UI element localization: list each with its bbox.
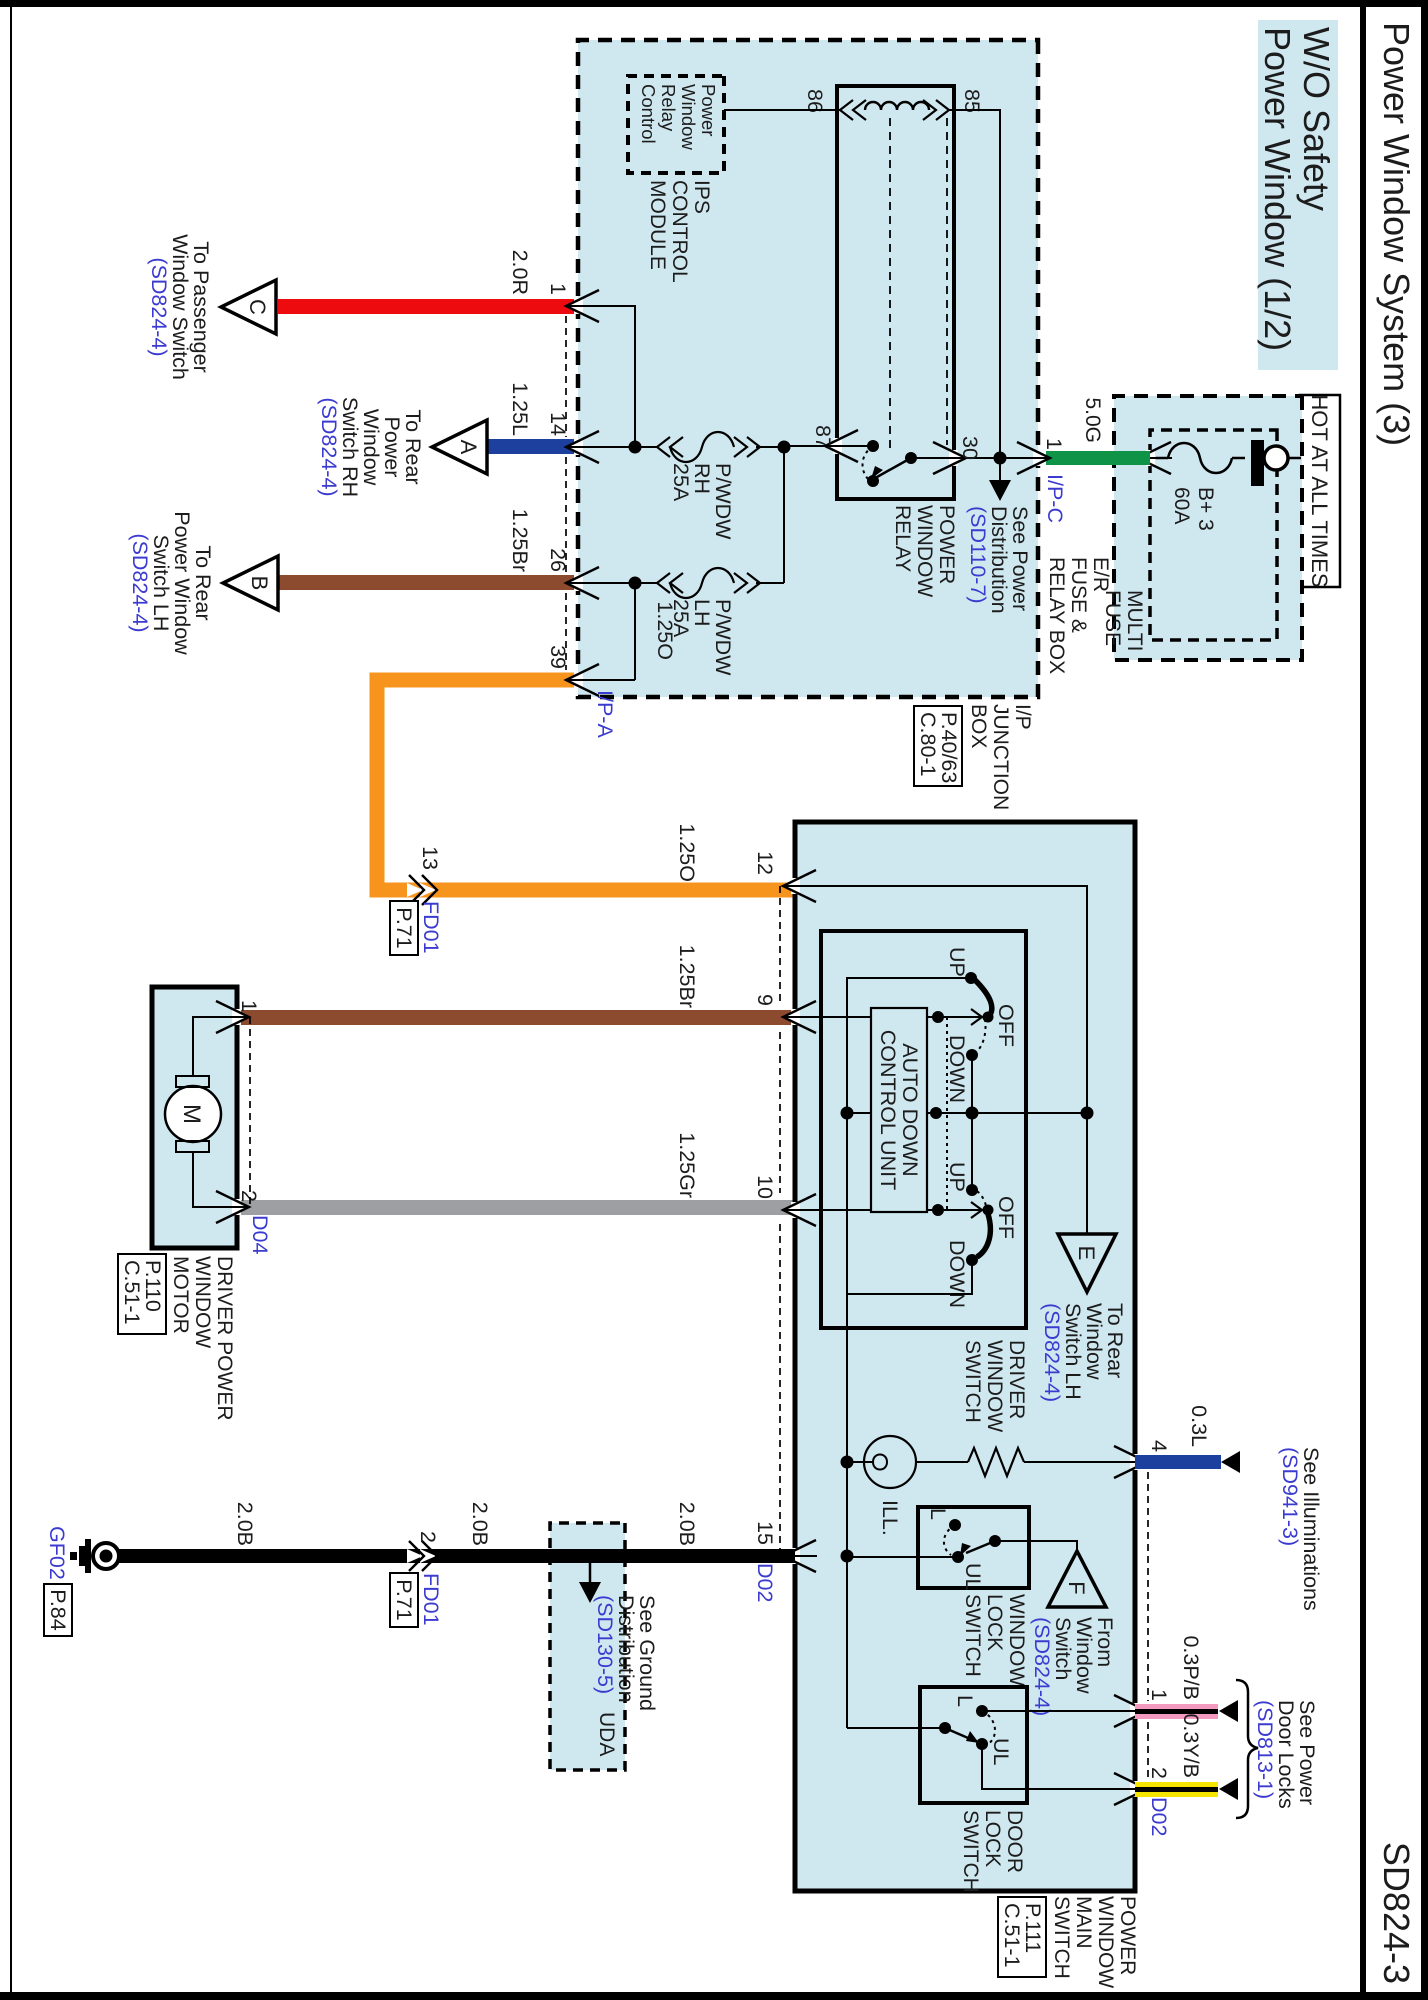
POWER WINDOW RELAY label	[891, 505, 958, 597]
door lock arm	[945, 1728, 975, 1741]
svg-text:POWER: POWER	[1116, 1896, 1139, 1975]
svg-text:26: 26	[546, 548, 570, 572]
ground tap arrow	[579, 1556, 601, 1603]
D04 connector dashed link	[249, 1017, 251, 1207]
svg-text:Switch: Switch	[1051, 1617, 1075, 1680]
svg-text:P.110: P.110	[141, 1260, 165, 1312]
To Rear Power Window Switch RH label	[317, 397, 425, 497]
svg-text:P.84: P.84	[46, 1589, 70, 1630]
P.84 label box	[44, 1584, 72, 1636]
lower switch arm arrow	[983, 1205, 994, 1216]
svg-text:Power Window System (3): Power Window System (3)	[1376, 22, 1417, 446]
svg-text:Power: Power	[380, 417, 404, 478]
pin labels on junction box	[546, 283, 570, 669]
upper switch thick arc	[975, 980, 992, 1016]
P.110 C.51-1 label box	[118, 1254, 166, 1334]
relay internal dashed links	[890, 118, 947, 452]
wire pin9 to contact	[795, 1016, 981, 1018]
svg-text:CONTROL: CONTROL	[668, 180, 691, 283]
svg-text:UDA: UDA	[595, 1712, 618, 1756]
window lock dotted arc	[944, 1525, 955, 1555]
D02 connector dashed link bottom	[779, 886, 781, 1003]
wire lower UP to bus?	[971, 1113, 973, 1190]
pin chevrons on main switch box top	[1113, 1446, 1148, 1805]
svg-text:JUNCTION: JUNCTION	[989, 704, 1012, 810]
svg-text:1.25Br: 1.25Br	[675, 945, 699, 1008]
driver power window motor box	[152, 987, 237, 1248]
ground symbol GF02	[70, 1539, 119, 1573]
svg-text:MULTI: MULTI	[1123, 590, 1146, 651]
svg-text:M: M	[178, 1104, 205, 1124]
svg-text:Door Locks: Door Locks	[1274, 1700, 1298, 1809]
D02 connector dashed link top	[1147, 1472, 1149, 1701]
svg-text:OFF: OFF	[994, 1196, 1018, 1239]
svg-text:1: 1	[546, 283, 570, 295]
svg-text:4: 4	[1147, 1440, 1171, 1452]
svg-text:P/WDW: P/WDW	[711, 463, 735, 540]
wire gauge labels	[508, 250, 677, 660]
trunk to door lock	[846, 1462, 848, 1728]
wire 0.3L dark blue	[1135, 1455, 1221, 1469]
wire 26/39 branch	[634, 583, 636, 680]
door lock common	[939, 1722, 951, 1734]
wire pin10 to contact	[795, 1209, 981, 1211]
illumination arrow	[1221, 1451, 1240, 1473]
See Ground Distribution label	[593, 1595, 659, 1711]
svg-text:1.25O: 1.25O	[675, 823, 699, 882]
wire 5.0G green	[1046, 451, 1150, 465]
P/WDW RH 25A label	[669, 463, 735, 540]
svg-text:Window: Window	[359, 409, 383, 486]
svg-text:UP: UP	[945, 1162, 969, 1192]
node trunk pin15	[841, 1550, 854, 1563]
svg-text:30: 30	[958, 436, 982, 460]
svg-text:DRIVER POWER: DRIVER POWER	[213, 1256, 236, 1421]
svg-text:LOCK: LOCK	[981, 1810, 1004, 1867]
P/WDW LH 25A label	[669, 599, 735, 676]
ILL lamp	[864, 1436, 916, 1488]
wire 1.25Gr gray motor to switch	[237, 1200, 795, 1215]
svg-text:SWITCH: SWITCH	[959, 1810, 982, 1893]
svg-text:2: 2	[416, 1531, 440, 1543]
driver switch upper contact DOWN	[966, 1049, 978, 1061]
svg-text:Window: Window	[1072, 1617, 1096, 1694]
svg-text:MAIN: MAIN	[1072, 1896, 1095, 1949]
svg-text:LH: LH	[690, 599, 714, 626]
svg-text:12: 12	[753, 851, 777, 875]
svg-text:DRIVER: DRIVER	[1005, 1340, 1028, 1419]
svg-text:Power Window (1/2): Power Window (1/2)	[1257, 27, 1298, 351]
driver switch lower contact UP	[966, 1184, 978, 1196]
svg-text:UP: UP	[945, 947, 969, 977]
svg-text:2: 2	[237, 1190, 261, 1202]
svg-text:UL: UL	[989, 1738, 1013, 1766]
pin 1 I/P-C at junction box top	[1016, 438, 1067, 523]
wire 1.25L blue	[487, 439, 577, 454]
svg-text:DOOR: DOOR	[1003, 1810, 1026, 1873]
svg-text:Distribution: Distribution	[614, 1595, 638, 1703]
common trunk wire	[847, 978, 971, 1462]
header highlight W/O Safety Power Window (1/2)	[1257, 20, 1338, 370]
wire 1.25Br brown	[278, 575, 577, 590]
resistor to pin4 wire	[1024, 1461, 1135, 1463]
svg-text:(SD813-1): (SD813-1)	[1253, 1700, 1277, 1799]
From Window Switch label	[1030, 1617, 1117, 1716]
svg-text:9: 9	[753, 994, 777, 1006]
svg-text:2.0B: 2.0B	[468, 1502, 492, 1546]
Power Window Relay Control label	[638, 84, 719, 150]
svg-text:RELAY BOX: RELAY BOX	[1045, 557, 1068, 674]
wire common to F	[995, 1541, 1077, 1551]
svg-text:W/O Safety: W/O Safety	[1296, 27, 1337, 211]
auto down control unit box	[871, 1008, 927, 1212]
triangle E	[1058, 1234, 1116, 1292]
wire 1.25Br brown motor to switch	[237, 1010, 795, 1025]
svg-text:1.25O: 1.25O	[653, 601, 677, 660]
mechanical dotted link	[946, 1017, 948, 1210]
svg-text:FD01: FD01	[419, 901, 443, 954]
window lock arm	[966, 1541, 995, 1553]
svg-text:(SD824-4): (SD824-4)	[128, 533, 152, 632]
window lock switch box	[918, 1507, 1029, 1588]
svg-text:P.71: P.71	[392, 1579, 416, 1620]
svg-text:SD824-3: SD824-3	[1376, 1842, 1417, 1984]
svg-text:A: A	[456, 440, 481, 455]
DRIVER POWER WINDOW MOTOR label	[169, 1256, 236, 1421]
svg-text:Switch LH: Switch LH	[1061, 1303, 1085, 1400]
MULTI FUSE label	[1101, 590, 1146, 651]
svg-text:(SD130-5): (SD130-5)	[593, 1595, 617, 1694]
wire door lock L to pin1	[982, 1710, 1135, 1712]
node pin10 adcu	[932, 1204, 944, 1216]
svg-text:(SD824-4): (SD824-4)	[1030, 1617, 1054, 1716]
svg-text:C.51-1: C.51-1	[120, 1260, 144, 1325]
door lock L contact	[976, 1705, 988, 1717]
svg-text:Switch LH: Switch LH	[149, 535, 173, 632]
svg-text:RH: RH	[690, 463, 714, 494]
svg-text:10: 10	[753, 1175, 777, 1199]
window lock L contact	[949, 1519, 961, 1531]
svg-text:To Rear: To Rear	[1103, 1303, 1127, 1378]
wire pin12 feed	[795, 886, 1087, 1234]
svg-text:SWITCH: SWITCH	[961, 1340, 984, 1423]
svg-text:DOWN: DOWN	[945, 1035, 969, 1103]
node breakers join	[778, 441, 791, 454]
svg-text:C: C	[245, 299, 270, 315]
svg-text:UL: UL	[961, 1563, 985, 1591]
svg-text:MODULE: MODULE	[646, 180, 669, 270]
motor pin labels	[237, 1000, 261, 1202]
relay coil	[865, 102, 929, 110]
svg-text:RELAY: RELAY	[891, 505, 914, 572]
P.40/63 C.80-1 label box	[914, 706, 962, 786]
door lock arrow pink	[1219, 1700, 1238, 1722]
page border top	[1421, 0, 1428, 2000]
To Rear Window Switch LH label	[1040, 1303, 1127, 1402]
svg-text:From: From	[1093, 1617, 1117, 1667]
wire door lock common to trunk	[847, 1727, 945, 1729]
svg-text:1: 1	[1042, 438, 1066, 450]
svg-text:FUSE &: FUSE &	[1067, 557, 1090, 633]
P.111 C.51-1 label box	[998, 1897, 1046, 1977]
svg-text:WINDOW: WINDOW	[983, 1340, 1006, 1432]
svg-text:(SD824-4): (SD824-4)	[317, 397, 341, 496]
wire 86 to IPS module	[724, 109, 840, 111]
lower switch thick arc	[977, 1214, 990, 1257]
triangle B	[223, 556, 278, 610]
svg-text:2.0R: 2.0R	[508, 250, 532, 295]
svg-text:1.25L: 1.25L	[508, 382, 532, 436]
wire red pin to node	[578, 306, 635, 447]
svg-text:LOCK: LOCK	[983, 1594, 1006, 1651]
svg-text:To Passenger: To Passenger	[189, 241, 213, 372]
I/P JUNCTION BOX label	[967, 704, 1034, 810]
svg-text:F: F	[1064, 1581, 1089, 1594]
I/P-A connector dashed link	[565, 316, 567, 437]
pin chevrons on main switch box bottom	[782, 870, 817, 1572]
window lock arm arrow	[960, 1543, 971, 1556]
svg-text:D04: D04	[248, 1215, 272, 1254]
svg-text:Switch RH: Switch RH	[338, 397, 362, 497]
wire pin26 to breaker	[578, 582, 635, 584]
svg-text:25A: 25A	[669, 463, 693, 502]
wire 2.0B black ground wire	[99, 1549, 795, 1563]
relay switch contacts	[837, 440, 940, 487]
svg-text:Window: Window	[678, 84, 699, 150]
wire 0.3P/B pink with black stripe	[1135, 1704, 1218, 1719]
svg-text:Power Window: Power Window	[170, 511, 194, 655]
upper switch dotted arc to DOWN	[977, 1019, 986, 1051]
page border right	[0, 1992, 1428, 2000]
svg-text:WINDOW: WINDOW	[1005, 1594, 1028, 1686]
svg-text:5.0G: 5.0G	[1081, 397, 1104, 443]
wire upper DOWN to bus	[971, 1055, 973, 1113]
WINDOW LOCK SWITCH label	[961, 1594, 1028, 1686]
node bus top	[1081, 1107, 1094, 1120]
node 26/39	[629, 577, 642, 590]
svg-text:E: E	[1074, 1246, 1099, 1261]
svg-text:C.51-1: C.51-1	[1000, 1903, 1024, 1968]
svg-text:1.25Br: 1.25Br	[508, 509, 532, 572]
I/P junction box	[578, 40, 1038, 697]
svg-text:D02: D02	[1147, 1797, 1171, 1836]
svg-text:ILL.: ILL.	[878, 1500, 902, 1536]
pin labels top	[1147, 1440, 1171, 1779]
svg-text:60A: 60A	[1170, 487, 1193, 524]
svg-text:WINDOW: WINDOW	[1094, 1896, 1117, 1988]
node bus adcu	[930, 1107, 942, 1119]
battery terminal circle	[1264, 446, 1301, 470]
svg-text:B+ 3: B+ 3	[1194, 487, 1217, 531]
battery bar	[1251, 440, 1264, 486]
svg-text:POWER: POWER	[935, 505, 958, 584]
svg-text:2: 2	[1147, 1767, 1171, 1779]
node at I/P-C branch	[994, 452, 1007, 465]
svg-text:To Rear: To Rear	[191, 545, 215, 620]
svg-text:(SD110-7): (SD110-7)	[966, 506, 990, 604]
window lock UL contact	[952, 1551, 964, 1563]
wire 1.25O orange	[377, 680, 795, 890]
relay coil chevrons pin 85	[923, 100, 949, 120]
wire pin39	[578, 679, 635, 681]
triangle C	[221, 280, 276, 334]
svg-text:HOT AT ALL TIMES: HOT AT ALL TIMES	[1307, 394, 1332, 587]
svg-text:CONTROL UNIT: CONTROL UNIT	[876, 1030, 900, 1190]
wire gauge labels bottom	[675, 945, 699, 1546]
door lock arm arrow	[966, 1731, 979, 1743]
svg-text:WINDOW: WINDOW	[913, 505, 936, 597]
svg-text:0.3P/B: 0.3P/B	[1179, 1635, 1203, 1700]
circuit breaker P/WDW RH 25A	[635, 432, 784, 462]
lower switch dotted arc	[977, 1191, 986, 1211]
door lock switch box	[920, 1687, 1027, 1803]
node trunk lamp	[841, 1456, 854, 1469]
svg-text:SWITCH: SWITCH	[961, 1594, 984, 1677]
svg-text:Power: Power	[698, 84, 719, 136]
FD01 connector on orange wire	[390, 846, 443, 955]
title rule	[1360, 0, 1366, 2000]
lamp to resistor wire	[916, 1461, 968, 1463]
door lock dotted arc	[982, 1711, 995, 1744]
To Rear Power Window Switch LH label	[128, 511, 215, 655]
pin chevrons on junction box bottom edge	[565, 290, 600, 696]
svg-text:(SD824-4): (SD824-4)	[1040, 1303, 1064, 1402]
DRIVER WINDOW SWITCH label	[961, 1340, 1028, 1432]
page border left	[0, 0, 1428, 7]
bus vertical	[847, 1112, 1087, 1114]
wire lower DOWN to trunk	[847, 1260, 972, 1294]
svg-text:P.40/63: P.40/63	[937, 712, 961, 783]
window lock common	[989, 1535, 1001, 1547]
svg-text:FD01: FD01	[419, 1573, 443, 1626]
svg-text:I/P-C: I/P-C	[1043, 474, 1067, 523]
svg-text:Distribution: Distribution	[987, 506, 1011, 614]
See Power Door Locks label	[1253, 1700, 1319, 1809]
node bus mid	[966, 1107, 979, 1120]
svg-text:C.80-1: C.80-1	[916, 712, 940, 777]
svg-text:1: 1	[1147, 1689, 1171, 1701]
power window relay box	[837, 86, 954, 499]
chevron at multi fuse exit	[1146, 450, 1155, 466]
relay pin 30 chevron	[949, 450, 958, 466]
upper switch arm arrow	[983, 1012, 994, 1023]
svg-text:(SD941-3): (SD941-3)	[1278, 1447, 1302, 1546]
svg-text:AUTO DOWN: AUTO DOWN	[898, 1043, 922, 1176]
svg-text:0.3L: 0.3L	[1187, 1405, 1211, 1447]
svg-text:L: L	[953, 1695, 977, 1707]
svg-text:Window: Window	[1082, 1303, 1106, 1380]
triangle A	[432, 420, 487, 474]
wire RH to relay 87	[784, 445, 837, 447]
svg-text:MOTOR: MOTOR	[169, 1256, 192, 1334]
svg-text:Relay: Relay	[658, 84, 679, 132]
svg-text:1.25Gr: 1.25Gr	[675, 1132, 699, 1198]
node pin9 adcu	[932, 1011, 944, 1023]
fuse B+ 3 60A	[1156, 443, 1245, 473]
IPS control module box	[628, 76, 724, 173]
svg-text:(SD824-4): (SD824-4)	[147, 257, 171, 356]
See Illuminations label	[1278, 1447, 1323, 1611]
svg-text:Control: Control	[638, 84, 659, 144]
wire from I/P-C to node	[1000, 457, 1038, 459]
circuit breaker P/WDW LH 25A	[635, 568, 784, 598]
svg-text:I/P: I/P	[1011, 704, 1034, 730]
wire 85 to node	[949, 110, 1000, 458]
wire RH-LH branch	[783, 447, 785, 583]
svg-text:See Illuminations: See Illuminations	[1299, 1447, 1323, 1611]
POWER WINDOW MAIN SWITCH label	[1050, 1896, 1139, 1988]
wire door lock UL to pin2	[982, 1744, 1135, 1789]
UDA ground distribution box	[550, 1523, 625, 1770]
svg-text:14: 14	[546, 412, 570, 436]
wire 0.3Y/B yellow with black stripe	[1135, 1782, 1218, 1797]
door lock UL contact	[976, 1738, 988, 1750]
driver switch upper contact UP	[965, 972, 977, 984]
driver switch lower contact DOWN	[966, 1254, 978, 1266]
fuse label B+ 3 / 60A	[1170, 487, 1217, 531]
wire node to relay pin 30	[954, 457, 1000, 459]
driver window switch inner box	[821, 931, 1026, 1328]
motor pin chevrons	[215, 1001, 250, 1223]
svg-text:15: 15	[753, 1521, 777, 1545]
svg-text:2.0B: 2.0B	[233, 1502, 257, 1546]
svg-text:B: B	[247, 576, 272, 591]
HOT AT ALL TIMES box	[1300, 394, 1340, 587]
See Power Distribution (SD110-7) label	[966, 506, 1032, 614]
svg-text:P/WDW: P/WDW	[711, 599, 735, 676]
multi fuse box	[1150, 430, 1277, 640]
svg-text:See Power: See Power	[1295, 1700, 1319, 1805]
svg-text:2.0B: 2.0B	[675, 1502, 699, 1546]
svg-text:IPS: IPS	[690, 180, 713, 214]
E/R FUSE & RELAY BOX label	[1045, 557, 1112, 674]
IPS CONTROL MODULE label	[646, 180, 713, 283]
svg-text:P.111: P.111	[1021, 1903, 1045, 1953]
node trunk bus	[841, 1107, 854, 1120]
svg-text:I/P-A: I/P-A	[593, 690, 617, 738]
svg-text:39: 39	[546, 645, 570, 669]
node red/14	[629, 441, 642, 454]
svg-text:FUSE: FUSE	[1101, 590, 1124, 646]
FD01 connector on black wire	[390, 1531, 443, 1627]
triangle F	[1048, 1551, 1106, 1607]
E/R fuse &amp; relay box	[1114, 396, 1302, 660]
svg-text:E/R: E/R	[1089, 557, 1112, 592]
wire pin14 to node	[578, 446, 635, 448]
pin labels bottom	[753, 851, 777, 1545]
relay pin 87 chevron	[833, 438, 842, 454]
resistor	[968, 1448, 1024, 1476]
svg-text:DOWN: DOWN	[945, 1240, 969, 1308]
power window main switch box	[795, 822, 1135, 1891]
wire 2.0R red	[278, 299, 577, 314]
relay coil chevrons pin 86	[840, 100, 866, 120]
svg-text:SWITCH: SWITCH	[1050, 1896, 1073, 1979]
door lock arrow yellow	[1219, 1778, 1238, 1800]
svg-text:Window Switch: Window Switch	[168, 234, 192, 380]
svg-text:1: 1	[237, 1000, 261, 1012]
DOOR LOCK SWITCH label	[959, 1810, 1026, 1893]
svg-text:L: L	[926, 1508, 950, 1520]
arrow tap See Power Distribution	[989, 458, 1011, 501]
svg-text:13: 13	[418, 846, 442, 870]
svg-text:BOX: BOX	[967, 704, 990, 748]
svg-text:OFF: OFF	[994, 1004, 1018, 1047]
To Passenger Window Switch label	[147, 234, 213, 380]
svg-text:0.3Y/B: 0.3Y/B	[1179, 1713, 1203, 1778]
svg-text:To Rear: To Rear	[401, 409, 425, 484]
svg-text:WINDOW: WINDOW	[191, 1256, 214, 1348]
